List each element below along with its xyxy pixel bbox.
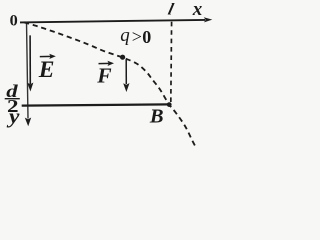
svg-text:B: B bbox=[149, 106, 164, 128]
svg-text:>: > bbox=[132, 27, 142, 47]
svg-text:0: 0 bbox=[142, 27, 151, 47]
svg-text:0: 0 bbox=[10, 10, 18, 29]
svg-text:q: q bbox=[120, 25, 130, 46]
svg-text:F: F bbox=[96, 63, 111, 87]
svg-text:E: E bbox=[38, 57, 55, 83]
svg-text:x: x bbox=[192, 0, 203, 20]
